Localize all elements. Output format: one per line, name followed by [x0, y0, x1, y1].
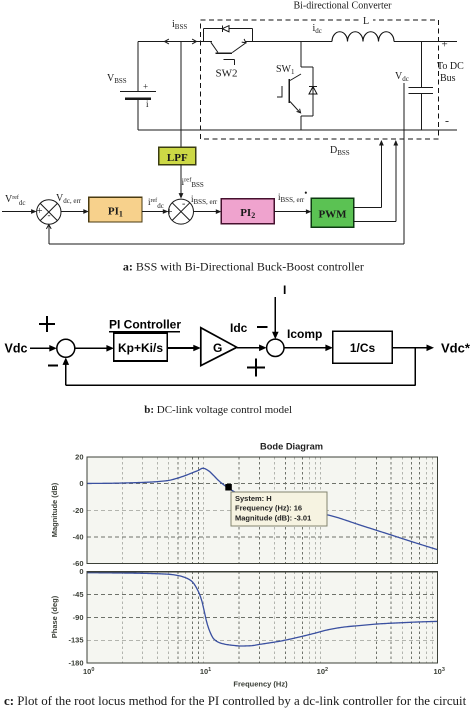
svg-text:-40: -40: [73, 532, 84, 541]
svg-text:0: 0: [79, 479, 83, 488]
svg-text:Bi-directional Converter: Bi-directional Converter: [293, 1, 392, 12]
svg-text:LPF: LPF: [167, 152, 188, 164]
svg-text:100: 100: [83, 667, 94, 676]
svg-text:-90: -90: [73, 613, 84, 622]
svg-text:+: +: [143, 82, 148, 92]
svg-text:+: +: [36, 205, 42, 217]
svg-text:Bus: Bus: [440, 73, 456, 84]
svg-text:PI Controller: PI Controller: [109, 318, 181, 332]
svg-text:Bode Diagram: Bode Diagram: [260, 442, 323, 452]
svg-text:-180: -180: [68, 659, 83, 668]
svg-text:Vdc*: Vdc*: [441, 340, 471, 355]
svg-text:L: L: [363, 16, 369, 27]
svg-text:b: DC-link voltage control mod: b: DC-link voltage control model: [144, 404, 292, 416]
svg-text:Idc: Idc: [230, 321, 248, 335]
svg-text:irefdc: irefdc: [148, 197, 164, 210]
svg-text:20: 20: [75, 453, 83, 462]
svg-text:Frequency (Hz): Frequency (Hz): [233, 680, 288, 689]
svg-text:VBSS: VBSS: [107, 73, 127, 85]
svg-text:System: H: System: H: [235, 494, 272, 503]
svg-text:c: Plot of the root locus met: c: Plot of the root locus method for the…: [4, 694, 467, 708]
svg-text:G: G: [213, 341, 222, 355]
svg-text:I: I: [283, 283, 286, 297]
svg-text:SW1: SW1: [276, 64, 295, 76]
svg-text:To DC: To DC: [437, 61, 464, 72]
svg-text:101: 101: [200, 667, 211, 676]
svg-text:idc: idc: [313, 23, 322, 35]
svg-text:PWM: PWM: [318, 209, 347, 221]
svg-text:iBSS: iBSS: [172, 19, 187, 31]
svg-text:103: 103: [434, 667, 445, 676]
svg-text:Icomp: Icomp: [287, 327, 322, 341]
svg-text:Vrefdc: Vrefdc: [5, 194, 26, 207]
svg-text:iBSS, err: iBSS, err: [191, 194, 218, 206]
svg-text:Vdc, err: Vdc, err: [56, 193, 82, 205]
svg-text:Phase (deg): Phase (deg): [50, 595, 59, 638]
svg-text:0: 0: [79, 567, 83, 576]
svg-text:irefBSS: irefBSS: [182, 177, 204, 190]
svg-text:+: +: [166, 206, 172, 218]
svg-text:Vdc: Vdc: [395, 71, 409, 83]
svg-text:-20: -20: [73, 506, 84, 515]
svg-text:-: -: [445, 114, 449, 128]
svg-text:i: i: [146, 99, 149, 109]
svg-text:Vdc: Vdc: [5, 342, 28, 356]
svg-text:iBSS, err•: iBSS, err•: [278, 188, 307, 204]
svg-text:-: -: [182, 199, 185, 210]
svg-text:Magnitude (dB): -3.01: Magnitude (dB): -3.01: [235, 513, 311, 522]
svg-text:a: BSS with Bi-Directional Buc: a: BSS with Bi-Directional Buck-Boost co…: [123, 260, 364, 274]
svg-text:Frequency (Hz): 16: Frequency (Hz): 16: [235, 504, 302, 513]
svg-text:+: +: [442, 39, 448, 51]
svg-text:DBSS: DBSS: [330, 145, 350, 157]
svg-text:-135: -135: [68, 636, 83, 645]
svg-text:-45: -45: [73, 590, 84, 599]
svg-text:102: 102: [317, 667, 328, 676]
svg-text:Kp+Ki/s: Kp+Ki/s: [118, 341, 163, 355]
svg-text:SW2: SW2: [216, 68, 238, 80]
svg-text:Magnitude (dB): Magnitude (dB): [50, 482, 59, 537]
svg-text:1/Cs: 1/Cs: [350, 341, 376, 355]
